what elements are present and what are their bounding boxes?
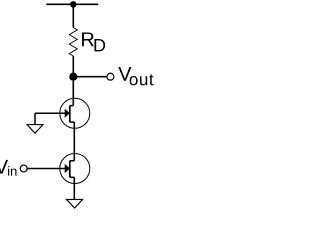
- Vin open terminal circle: [20, 165, 27, 172]
- wire M2 source to M1 drain: [73, 122, 75, 161]
- ground symbol (M1 source): [67, 199, 83, 208]
- label Vin subscript in: [8, 166, 16, 175]
- wire M1 source to ground: [73, 177, 75, 199]
- wire from resistor through output node to transistor M2 drain: [72, 56, 74, 106]
- label Vin: [0, 160, 8, 174]
- wire output node to Vout terminal: [73, 76, 107, 78]
- label Vout subscript out: [130, 74, 154, 85]
- transistor M1 (bottom, common-source) body circle: [60, 154, 90, 184]
- M1 gate arrowhead: [65, 164, 70, 173]
- M2 gate wire to ground: [35, 112, 65, 114]
- M1 drain jog: [70, 160, 75, 162]
- junction dot on supply rail: [70, 1, 76, 7]
- resistor RD zigzag: [69, 28, 77, 57]
- output node junction dot: [69, 73, 77, 81]
- M2 gate arrowhead: [65, 109, 70, 118]
- label RD subscript D: [94, 39, 105, 51]
- M2 drain jog: [70, 105, 74, 107]
- label Vout: [118, 67, 131, 81]
- transistor M2 (top, common-gate) body circle: [60, 98, 90, 128]
- Vout open terminal circle: [107, 73, 114, 80]
- M1 gate wire to Vin: [27, 168, 65, 170]
- M2 channel bar: [69, 106, 71, 123]
- M2 source jog: [70, 121, 75, 123]
- wire from rail to resistor RD: [72, 4, 74, 27]
- M1 source jog: [70, 176, 75, 178]
- label RD: [82, 32, 94, 46]
- wire down from gate to ground symbol: [34, 113, 36, 124]
- ground symbol (M2 gate): [27, 125, 43, 134]
- M1 channel bar: [69, 161, 71, 178]
- VDD supply rail: [46, 3, 98, 5]
